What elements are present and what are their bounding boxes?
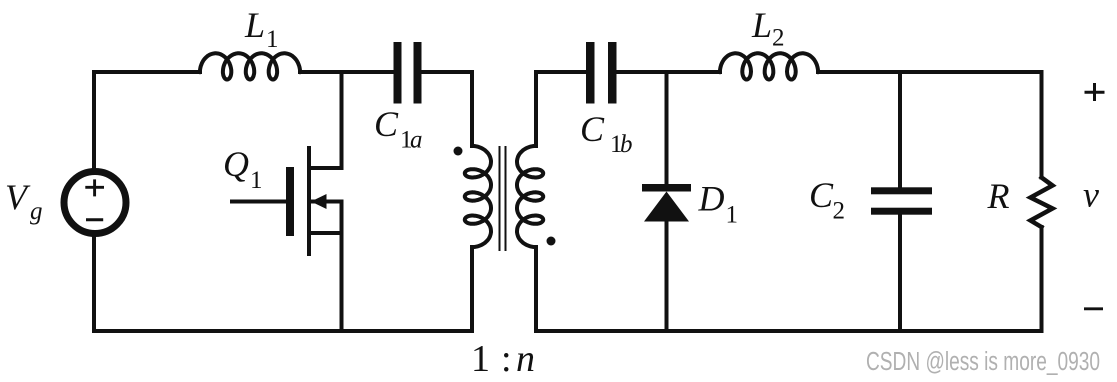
- svg-text:b: b: [620, 131, 633, 158]
- svg-text:2: 2: [833, 198, 846, 225]
- svg-text:V: V: [5, 177, 31, 217]
- svg-text:2: 2: [772, 25, 785, 52]
- svg-text:D: D: [698, 179, 725, 219]
- svg-text:Q: Q: [223, 144, 249, 184]
- svg-text:n: n: [516, 338, 535, 380]
- svg-text:1: 1: [471, 338, 490, 380]
- svg-text:R: R: [987, 176, 1010, 216]
- svg-text:1: 1: [726, 202, 739, 229]
- svg-text::: :: [501, 338, 512, 380]
- svg-text:L: L: [244, 5, 265, 45]
- svg-text:L: L: [751, 5, 772, 45]
- svg-text:v: v: [1083, 175, 1099, 215]
- svg-text:g: g: [30, 198, 43, 225]
- svg-text:C: C: [580, 109, 605, 149]
- svg-text:1: 1: [266, 26, 279, 53]
- svg-text:C: C: [809, 175, 834, 215]
- svg-text:a: a: [410, 127, 423, 154]
- svg-text:CSDN @less is more_0930: CSDN @less is more_0930: [866, 348, 1100, 376]
- svg-text:C: C: [374, 104, 399, 144]
- svg-text:1: 1: [250, 167, 263, 194]
